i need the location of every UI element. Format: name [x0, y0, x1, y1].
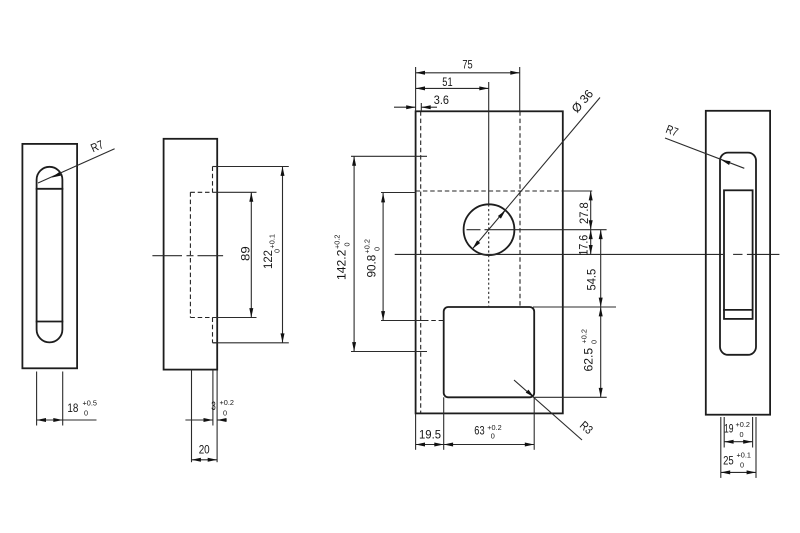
circle crosshair vertical	[488, 204, 490, 307]
square hole 63x62.5 R3	[444, 307, 535, 397]
dimension 3.6	[394, 106, 416, 108]
svg-text:3: 3	[211, 399, 216, 413]
dimension 122 +0.1/0	[282, 167, 284, 343]
dimension 17.6	[590, 230, 592, 255]
svg-text:0: 0	[740, 461, 744, 470]
leader R7 right	[665, 138, 744, 168]
dimension 19 +0.2/0	[724, 441, 752, 443]
svg-text:0: 0	[590, 340, 599, 344]
svg-text:90.8: 90.8	[365, 254, 379, 277]
extension verticals below main view	[415, 413, 417, 449]
hole circle D36	[464, 204, 515, 255]
dimension 75	[416, 72, 520, 74]
extension lines right side	[563, 190, 592, 192]
hidden line upper horizontal	[416, 190, 563, 192]
svg-text:+0.5: +0.5	[83, 399, 97, 408]
svg-text:19.5: 19.5	[419, 427, 441, 441]
svg-text:18: 18	[67, 401, 78, 415]
dimension 62.5 +0.2/0	[600, 307, 602, 397]
hidden recess bottom lip	[213, 342, 218, 344]
part1 front outline	[22, 144, 77, 368]
circle crosshair horizontal	[467, 229, 481, 231]
svg-text:51: 51	[442, 75, 453, 89]
part2 front outline	[416, 111, 563, 413]
svg-text:0: 0	[343, 242, 352, 246]
dimension 89	[250, 192, 252, 317]
part1 slot stadium	[37, 167, 63, 343]
svg-text:0: 0	[223, 408, 227, 417]
svg-text:0: 0	[84, 409, 88, 418]
svg-text:142.2: 142.2	[335, 249, 349, 280]
centerline view2	[152, 255, 182, 257]
svg-text:75: 75	[462, 58, 473, 72]
svg-text:+0.1: +0.1	[737, 451, 751, 460]
dimension 3 +0.2/0	[185, 419, 213, 421]
dimension 20	[192, 459, 218, 461]
hidden recess deep top	[190, 191, 213, 193]
svg-text:+0.2: +0.2	[363, 239, 372, 253]
svg-text:0: 0	[491, 431, 495, 440]
hidden line right vertical	[519, 111, 521, 307]
svg-text:0: 0	[273, 249, 282, 253]
extension lines 18	[36, 372, 38, 426]
part2 side outline	[706, 111, 770, 415]
svg-text:3.6: 3.6	[434, 93, 449, 107]
dimension 18 +0.5/0	[37, 419, 97, 421]
svg-text:63: 63	[474, 424, 485, 438]
leader R7 left	[38, 149, 115, 183]
dimension 19.5	[416, 444, 444, 446]
svg-text:0: 0	[373, 247, 382, 251]
dimension 90.8 +0.2/0	[382, 193, 384, 321]
dimension 142.2 +0.2/0	[353, 156, 355, 351]
svg-text:20: 20	[199, 443, 210, 457]
extension lines 122 and 89	[213, 166, 289, 168]
dimension 25 +0.1/0	[721, 471, 756, 473]
extension lines left 90.8	[381, 192, 416, 194]
hidden recess deep vertical	[189, 192, 191, 317]
extension verticals top	[415, 67, 417, 111]
part1 slot top chord	[37, 188, 63, 190]
svg-text:54.5: 54.5	[585, 269, 599, 291]
svg-text:+0.1: +0.1	[268, 234, 277, 248]
dimension 54.5	[600, 230, 602, 307]
svg-text:17.6: 17.6	[577, 235, 591, 256]
extension lines left 142.2	[351, 155, 427, 157]
hidden recess shallow top segment	[212, 167, 214, 193]
leader R3	[514, 380, 582, 440]
hidden line lower horizontal	[424, 320, 444, 322]
part1 side outline	[164, 139, 218, 370]
dimension 27.8	[590, 191, 592, 230]
slot inner rect	[724, 190, 753, 319]
dimension 51	[416, 87, 489, 89]
extension lines below right view	[720, 417, 722, 478]
part1 slot bottom chord	[37, 321, 63, 323]
svg-text:0: 0	[740, 430, 744, 439]
svg-text:19: 19	[724, 421, 734, 435]
hidden recess top lip	[213, 166, 218, 168]
slot inner chord	[724, 309, 753, 311]
svg-text:+0.2: +0.2	[220, 398, 234, 407]
svg-text:89: 89	[239, 246, 253, 261]
hidden recess shallow bottom segment	[212, 318, 214, 343]
extension lines below view2	[191, 370, 193, 463]
svg-text:+0.2: +0.2	[333, 235, 342, 249]
leader D36	[473, 98, 601, 249]
svg-text:25: 25	[723, 454, 734, 468]
main centerline	[395, 253, 723, 255]
svg-text:62.5: 62.5	[582, 347, 596, 371]
dimension 63 +0.2/0	[444, 444, 535, 446]
slot outer rounded	[720, 153, 756, 355]
svg-text:+0.2: +0.2	[736, 420, 750, 429]
svg-text:27.8: 27.8	[577, 202, 591, 224]
svg-text:+0.2: +0.2	[580, 329, 589, 343]
hidden line 3.6 offset vertical	[420, 111, 422, 413]
hidden recess deep bottom	[190, 317, 213, 319]
